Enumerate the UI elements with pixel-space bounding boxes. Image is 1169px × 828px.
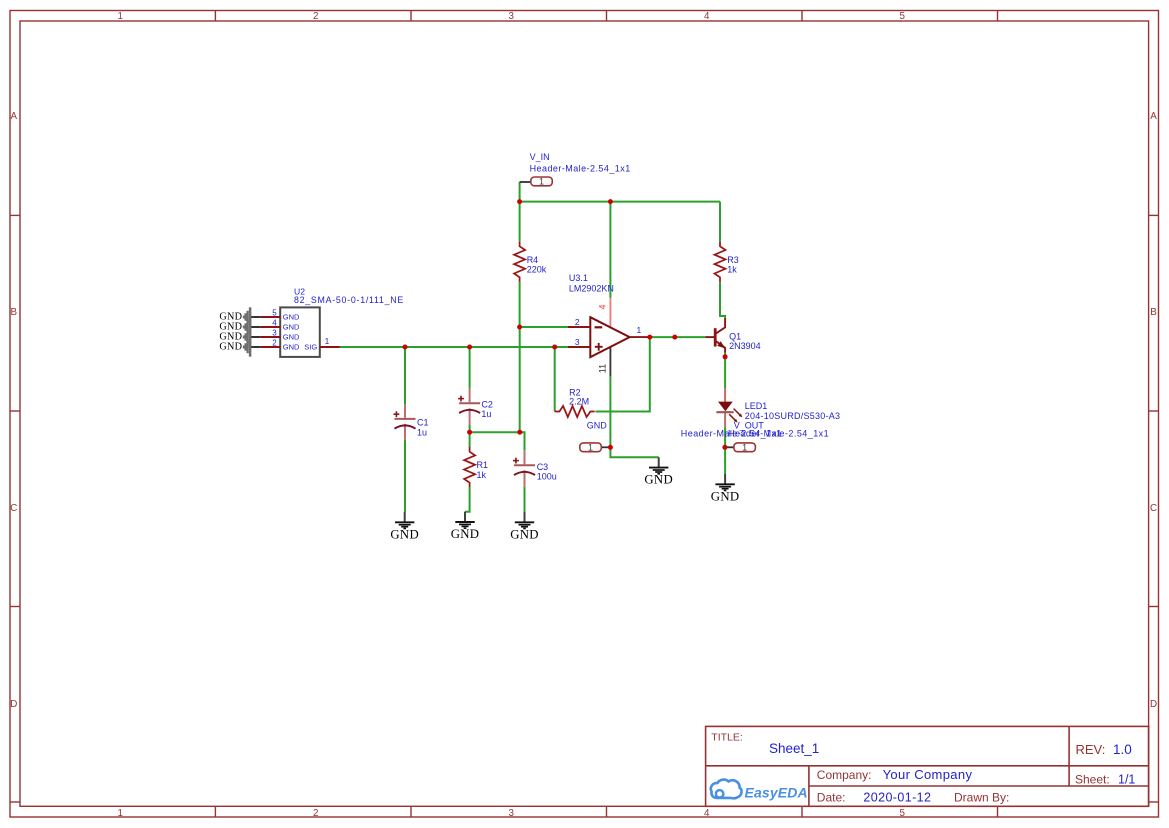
svg-text:V_IN: V_IN [530, 152, 550, 162]
svg-text:GND: GND [451, 527, 480, 541]
svg-text:3: 3 [272, 329, 277, 338]
svg-text:1: 1 [117, 808, 122, 819]
svg-text:3: 3 [575, 337, 580, 347]
svg-text:C2: C2 [481, 400, 493, 410]
svg-text:D: D [10, 699, 17, 710]
svg-text:2: 2 [313, 808, 318, 819]
svg-text:REV:: REV: [1076, 742, 1106, 757]
svg-text:100u: 100u [537, 472, 557, 482]
svg-text:R1: R1 [477, 460, 489, 470]
svg-text:B: B [1150, 307, 1157, 318]
svg-text:SIG: SIG [304, 343, 317, 352]
svg-text:2: 2 [313, 11, 318, 22]
svg-text:4: 4 [598, 304, 608, 309]
svg-text:GND: GND [510, 527, 539, 541]
svg-text:2: 2 [272, 339, 277, 348]
svg-text:1: 1 [588, 442, 593, 452]
svg-text:Your Company: Your Company [883, 767, 973, 782]
svg-text:Q1: Q1 [729, 332, 741, 342]
svg-text:3: 3 [508, 11, 514, 22]
svg-text:EasyEDA: EasyEDA [745, 785, 808, 801]
svg-text:1k: 1k [727, 265, 737, 275]
svg-text:4: 4 [272, 319, 277, 328]
svg-text:GND: GND [283, 333, 300, 342]
svg-text:1u: 1u [417, 427, 427, 437]
svg-text:2.2M: 2.2M [569, 396, 589, 406]
svg-text:GND: GND [587, 421, 608, 431]
svg-text:U3.1: U3.1 [569, 273, 588, 283]
svg-text:1k: 1k [477, 470, 487, 480]
svg-text:GND: GND [644, 473, 673, 487]
svg-text:1.0: 1.0 [1113, 742, 1132, 757]
svg-text:LM2902KN: LM2902KN [569, 284, 614, 294]
svg-text:GND: GND [283, 313, 300, 322]
svg-text:220k: 220k [527, 265, 547, 275]
svg-text:2N3904: 2N3904 [729, 341, 761, 351]
svg-text:C1: C1 [417, 418, 429, 428]
svg-text:GND: GND [219, 341, 242, 352]
svg-text:1: 1 [539, 176, 544, 186]
svg-text:Sheet_1: Sheet_1 [769, 741, 819, 756]
svg-text:GND: GND [283, 323, 300, 332]
svg-text:C3: C3 [537, 462, 549, 472]
svg-text:R4: R4 [527, 255, 539, 265]
svg-text:1: 1 [117, 11, 122, 22]
svg-text:3: 3 [508, 808, 514, 819]
svg-text:5: 5 [899, 11, 905, 22]
svg-text:4: 4 [704, 11, 710, 22]
svg-text:1: 1 [637, 325, 642, 335]
svg-text:GND: GND [711, 489, 740, 503]
svg-text:82_SMA-50-0-1/111_NE: 82_SMA-50-0-1/111_NE [294, 295, 404, 305]
svg-text:TITLE:: TITLE: [711, 732, 743, 744]
svg-text:A: A [11, 111, 18, 122]
svg-text:B: B [11, 307, 18, 318]
svg-text:2: 2 [575, 317, 580, 327]
svg-text:GND: GND [390, 527, 419, 541]
svg-text:LED1: LED1 [745, 401, 768, 411]
svg-text:4: 4 [704, 808, 710, 819]
svg-text:1: 1 [325, 337, 330, 346]
svg-text:A: A [1150, 111, 1157, 122]
svg-text:1u: 1u [481, 409, 491, 419]
svg-text:5: 5 [899, 808, 905, 819]
svg-text:R3: R3 [727, 255, 739, 265]
svg-text:Company:: Company: [817, 768, 872, 782]
svg-text:Header-Male-2.54_1x1: Header-Male-2.54_1x1 [530, 163, 631, 173]
svg-text:5: 5 [272, 309, 277, 318]
svg-text:2020-01-12: 2020-01-12 [863, 790, 931, 804]
svg-text:1/1: 1/1 [1118, 773, 1135, 787]
svg-text:Drawn By:: Drawn By: [954, 790, 1009, 804]
svg-text:C: C [10, 503, 17, 514]
svg-text:1: 1 [742, 442, 747, 452]
svg-text:C: C [1150, 503, 1157, 514]
svg-text:D: D [1150, 699, 1157, 710]
svg-text:Header-Male-2.54_1x1: Header-Male-2.54_1x1 [728, 429, 829, 439]
svg-text:11: 11 [598, 364, 608, 373]
svg-text:Sheet:: Sheet: [1075, 773, 1110, 787]
svg-text:GND: GND [283, 343, 300, 352]
svg-text:Date:: Date: [817, 790, 846, 804]
